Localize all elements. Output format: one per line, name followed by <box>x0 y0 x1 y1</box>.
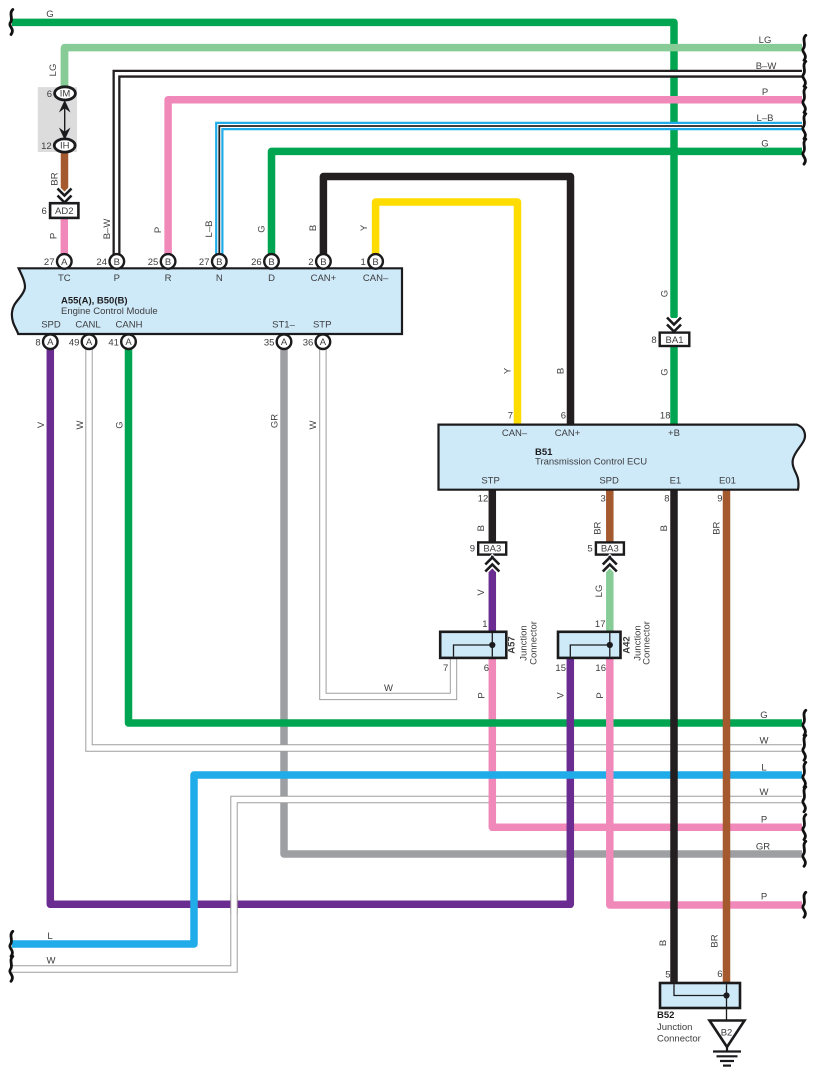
pin 25 B circle R <box>161 254 176 269</box>
svg-text:9: 9 <box>717 494 722 505</box>
svg-text:L–B: L–B <box>204 221 215 238</box>
pin 49 A circle CANL <box>82 334 97 349</box>
wire L-B from ECM pin 27B to right edge <box>219 126 802 255</box>
svg-text:9: 9 <box>470 543 475 554</box>
break symbol right L2 <box>803 762 806 787</box>
block A55(A) B50(B) Engine Control Module <box>12 268 402 334</box>
connector BA1 pin 8 <box>660 333 690 346</box>
svg-text:Engine Control Module: Engine Control Module <box>61 306 158 317</box>
svg-text:A: A <box>320 337 327 348</box>
wire G below BA1 to B51 pin 18 <box>670 346 678 425</box>
block B51 Transmission Control ECU <box>439 425 805 490</box>
svg-text:CAN+: CAN+ <box>555 428 581 439</box>
break symbol left G <box>10 10 13 35</box>
break symbol right LG <box>803 35 806 60</box>
svg-text:A42: A42 <box>622 636 633 653</box>
wire G from ECM pin 41 CANH to right edge <box>129 349 803 723</box>
pin 24 B circle P <box>110 254 125 269</box>
svg-text:24: 24 <box>96 257 107 268</box>
svg-text:L: L <box>47 931 52 942</box>
svg-text:G: G <box>46 9 53 20</box>
svg-text:BR: BR <box>50 172 61 185</box>
wire P from ECM pin 25 to right edge <box>168 100 802 255</box>
connector IM pin 6 <box>55 87 76 100</box>
svg-text:8: 8 <box>35 337 40 348</box>
junction connector B52 <box>660 983 740 1008</box>
svg-text:LG: LG <box>594 585 605 598</box>
svg-text:27: 27 <box>199 257 210 268</box>
svg-text:27: 27 <box>44 257 55 268</box>
arrow between IM and IH <box>59 100 71 140</box>
svg-text:8: 8 <box>651 335 656 346</box>
wire LG from IM connector to right edge <box>65 48 803 88</box>
pin 36 A circle STP <box>316 334 331 349</box>
svg-text:7: 7 <box>443 663 448 674</box>
break symbol left L <box>10 931 13 956</box>
svg-text:8: 8 <box>664 494 669 505</box>
svg-text:A: A <box>86 337 93 348</box>
wire W from ECM pin 49 CANL to right edge <box>89 349 802 748</box>
svg-text:P: P <box>595 692 606 698</box>
svg-text:18: 18 <box>660 411 671 422</box>
break symbol right W3 <box>803 787 806 812</box>
svg-text:6: 6 <box>42 206 47 217</box>
wire W overlap at purple crossing <box>230 895 237 914</box>
svg-text:A: A <box>61 257 68 268</box>
svg-text:6: 6 <box>47 89 52 100</box>
chevron pair above BA1 <box>667 318 681 334</box>
svg-text:BR: BR <box>592 521 603 534</box>
pin 27 B circle N <box>212 254 227 269</box>
svg-text:6: 6 <box>484 663 489 674</box>
svg-text:B: B <box>114 257 120 268</box>
svg-text:ST1–: ST1– <box>272 320 295 331</box>
svg-text:5: 5 <box>665 970 670 981</box>
svg-text:P: P <box>114 273 120 284</box>
connector panel IM-IH <box>38 87 77 152</box>
svg-text:B: B <box>165 257 171 268</box>
svg-text:6: 6 <box>561 411 566 422</box>
svg-text:B: B <box>659 525 670 531</box>
svg-text:W: W <box>760 787 769 798</box>
svg-text:5: 5 <box>587 543 592 554</box>
svg-text:B: B <box>476 525 487 531</box>
ground symbol <box>713 1047 741 1066</box>
svg-text:7: 7 <box>508 411 513 422</box>
svg-text:G: G <box>660 290 671 297</box>
svg-text:P: P <box>762 87 768 98</box>
svg-text:P: P <box>761 815 767 826</box>
break symbol left W <box>10 956 13 981</box>
svg-text:BA1: BA1 <box>666 335 684 346</box>
svg-text:G: G <box>257 225 268 232</box>
pin 35 A circle ST1- <box>277 334 292 349</box>
svg-text:1: 1 <box>361 257 366 268</box>
pin 26 B circle D <box>264 254 279 269</box>
svg-text:P: P <box>477 692 488 698</box>
svg-text:Junction: Junction <box>657 1022 692 1033</box>
svg-text:STP: STP <box>481 476 499 487</box>
pin 41 A circle CANH <box>121 334 136 349</box>
wire GR from ECM pin 35 ST1- to right edge <box>284 349 802 854</box>
break symbol right G2 <box>803 710 806 735</box>
svg-text:W: W <box>760 736 769 747</box>
svg-text:P: P <box>761 892 767 903</box>
wire P from A42 pin 16 to right edge <box>610 658 802 905</box>
break symbol right L-B <box>803 114 806 139</box>
svg-text:35: 35 <box>264 337 275 348</box>
break symbol right G <box>803 139 806 164</box>
svg-text:W: W <box>75 420 86 429</box>
wire B from B51 pin 12 STP to BA3 <box>489 489 497 543</box>
svg-text:G: G <box>761 139 768 150</box>
svg-text:25: 25 <box>148 257 159 268</box>
svg-text:B: B <box>372 257 378 268</box>
pin 8 A circle SPD <box>43 334 58 349</box>
wire V from BA3 to A57 pin 1 <box>489 565 497 632</box>
svg-text:B–W: B–W <box>756 61 777 72</box>
svg-text:36: 36 <box>303 337 314 348</box>
wire B CAN+ from ECM pin 2 to B51 pin 6 <box>323 177 570 426</box>
svg-text:A55(A), B50(B): A55(A), B50(B) <box>61 296 128 307</box>
svg-text:E01: E01 <box>719 476 736 487</box>
break symbol right W2 <box>803 735 806 760</box>
svg-text:B: B <box>556 368 567 374</box>
wire G from left edge to B51 +B pin 18 <box>12 22 674 318</box>
svg-text:D: D <box>268 273 275 284</box>
svg-text:A: A <box>281 337 288 348</box>
svg-text:W: W <box>47 956 56 967</box>
connector BA3 pin 9 <box>478 542 506 554</box>
svg-text:49: 49 <box>69 337 80 348</box>
svg-text:B: B <box>268 257 274 268</box>
svg-text:BR: BR <box>712 521 723 534</box>
svg-text:TC: TC <box>58 273 71 284</box>
svg-text:BR: BR <box>710 934 721 947</box>
connector IH pin 12 <box>54 139 75 152</box>
svg-text:AD2: AD2 <box>55 206 73 217</box>
svg-text:CAN–: CAN– <box>363 273 389 284</box>
svg-text:W: W <box>384 683 393 694</box>
svg-text:12: 12 <box>478 494 489 505</box>
break symbol right P3 <box>803 892 806 917</box>
svg-text:26: 26 <box>251 257 262 268</box>
svg-text:BA3: BA3 <box>601 543 619 554</box>
wire BR from B51 E01 to B52 pin 6 <box>723 489 731 984</box>
svg-text:Y: Y <box>359 224 370 231</box>
svg-text:B52: B52 <box>657 1010 674 1021</box>
svg-text:N: N <box>216 273 223 284</box>
svg-text:G: G <box>660 368 671 375</box>
wire B-W from ECM pin 24 to right edge <box>117 74 803 255</box>
svg-text:SPD: SPD <box>41 320 61 331</box>
break symbol right P2 <box>803 815 806 840</box>
svg-text:+B: +B <box>668 428 680 439</box>
junction connector A57 <box>440 632 506 658</box>
wire LG stub above IM <box>61 48 69 88</box>
svg-text:CAN–: CAN– <box>502 428 528 439</box>
chevron pair above AD2 <box>58 189 72 205</box>
chevron pair below BA3 pin 5 <box>603 556 617 572</box>
svg-text:Connector: Connector <box>657 1034 701 1045</box>
svg-text:V: V <box>36 421 47 428</box>
break symbol right B-W <box>803 61 806 86</box>
wire P from AD2 to ECM pin 27A <box>61 218 69 255</box>
svg-text:41: 41 <box>108 337 119 348</box>
svg-text:Connector: Connector <box>529 621 540 665</box>
svg-text:L–B: L–B <box>757 113 774 124</box>
svg-text:A57: A57 <box>507 636 518 653</box>
svg-text:B: B <box>658 940 669 946</box>
break symbol right GR <box>803 841 806 866</box>
svg-text:E1: E1 <box>670 476 682 487</box>
svg-text:B: B <box>216 257 222 268</box>
svg-text:A: A <box>47 337 54 348</box>
wire to ground B2 <box>726 1008 728 1021</box>
wire Y CAN- from ECM pin 1 to B51 pin 7 <box>376 202 518 425</box>
svg-text:Y: Y <box>503 367 514 374</box>
pin 27 A circle TC <box>57 254 72 269</box>
wire LG from BA3 to A42 pin 17 <box>606 565 614 632</box>
svg-text:L: L <box>761 763 766 774</box>
junction connector A42 <box>558 632 621 658</box>
svg-text:G: G <box>115 421 126 428</box>
svg-text:P: P <box>153 227 164 233</box>
svg-text:1: 1 <box>482 619 487 630</box>
svg-text:CANL: CANL <box>75 320 100 331</box>
break symbol right P <box>803 88 806 113</box>
wire BR from IH to AD2 <box>61 151 69 194</box>
connector BA3 pin 5 <box>596 542 624 554</box>
svg-text:B2: B2 <box>721 1028 733 1039</box>
wire W from left edge to right edge (lower) <box>12 800 802 970</box>
svg-text:2: 2 <box>308 257 313 268</box>
svg-text:IM: IM <box>60 89 71 100</box>
svg-text:LG: LG <box>759 35 772 46</box>
pin 1 B circle CAN- <box>368 254 383 269</box>
svg-text:CANH: CANH <box>116 320 143 331</box>
svg-text:Connector: Connector <box>642 621 653 665</box>
svg-text:3: 3 <box>601 494 606 505</box>
svg-text:17: 17 <box>595 619 606 630</box>
wire BR from B51 pin 3 SPD to BA3 <box>606 489 614 543</box>
svg-text:P: P <box>49 233 60 239</box>
svg-text:B–W: B–W <box>102 219 113 240</box>
svg-text:CAN+: CAN+ <box>311 273 337 284</box>
wire W from ECM pin 36 STP to A57 pin 7 <box>323 349 454 696</box>
ground triangle B2 <box>710 1021 745 1048</box>
svg-text:A: A <box>125 337 132 348</box>
svg-text:GR: GR <box>270 414 281 428</box>
chevron pair below BA3 pin 9 <box>485 556 499 572</box>
svg-text:16: 16 <box>595 663 606 674</box>
svg-text:V: V <box>556 692 567 699</box>
wire G from ECM pin 26 to right edge <box>272 151 803 255</box>
wire V from ECM pin 8 SPD to A42 pin 15 <box>50 349 570 904</box>
svg-text:B: B <box>320 257 326 268</box>
svg-text:GR: GR <box>756 842 770 853</box>
svg-text:G: G <box>760 710 767 721</box>
pin 2 B circle CAN+ <box>316 254 331 269</box>
svg-text:SPD: SPD <box>599 476 619 487</box>
svg-text:W: W <box>308 420 319 429</box>
svg-text:IH: IH <box>60 141 70 152</box>
wire L from left edge to right edge <box>12 775 802 944</box>
wire P from A57 pin 6 to right edge <box>492 658 802 827</box>
wire B from B51 E1 to B52 pin 5 <box>670 489 678 984</box>
svg-text:Transmission Control ECU: Transmission Control ECU <box>535 457 647 468</box>
svg-text:R: R <box>165 273 172 284</box>
svg-text:B: B <box>308 225 319 231</box>
svg-text:6: 6 <box>717 969 722 980</box>
svg-text:12: 12 <box>41 141 52 152</box>
svg-text:15: 15 <box>555 663 566 674</box>
svg-text:V: V <box>476 589 487 596</box>
svg-text:STP: STP <box>313 320 331 331</box>
svg-text:BA3: BA3 <box>483 543 501 554</box>
svg-text:LG: LG <box>48 64 59 77</box>
connector AD2 pin 6 <box>50 203 78 218</box>
